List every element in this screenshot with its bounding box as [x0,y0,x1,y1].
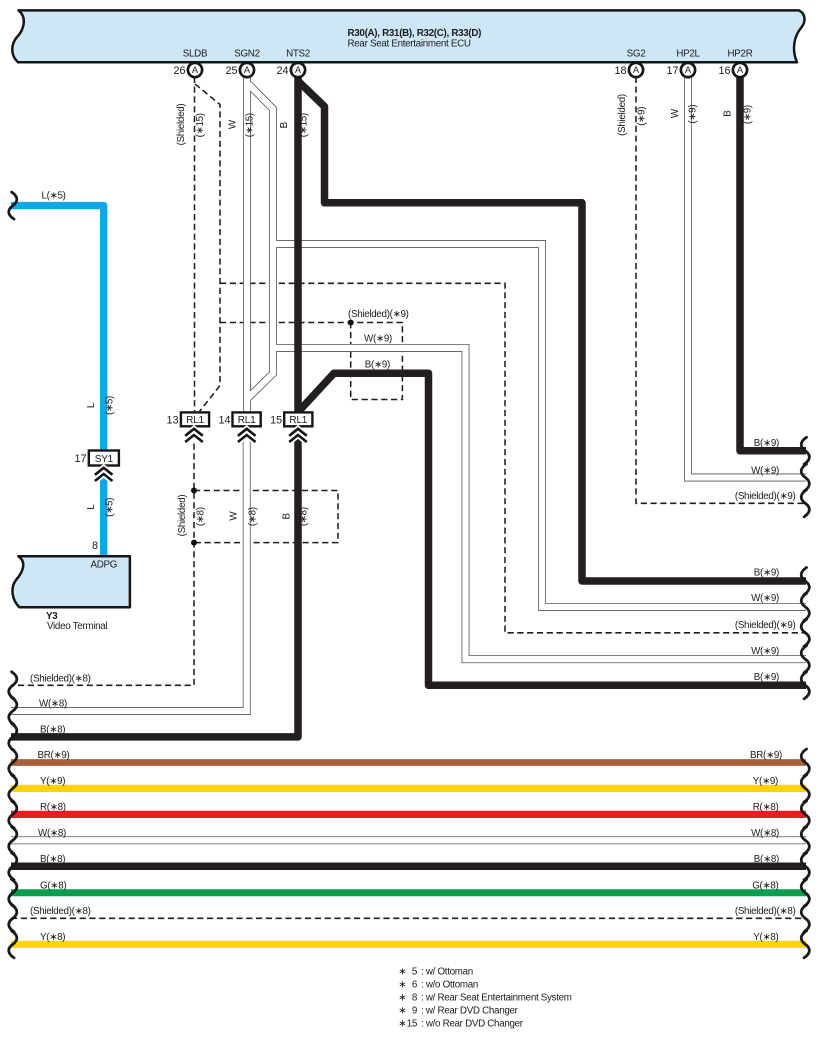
svg-text:(∗15): (∗15) [195,113,206,137]
svg-text:BR(∗9): BR(∗9) [38,750,70,761]
chevron arrows under RL1 pin15 [289,429,307,442]
svg-text:: w/ Ottoman: : w/ Ottoman [421,967,473,978]
svg-text:B(∗9): B(∗9) [754,567,779,578]
svg-text:B: B [281,513,292,520]
svg-text:B(∗8): B(∗8) [754,854,779,865]
svg-text:(∗8): (∗8) [247,507,258,526]
svg-text:15: 15 [407,1019,418,1030]
svg-text:: w/o Rear DVD Changer: : w/o Rear DVD Changer [421,1019,524,1030]
svg-text:RL1: RL1 [289,415,307,426]
svg-text:14: 14 [218,414,230,426]
wire B pin24 branch to right exit B(*9) y581 [298,81,806,581]
wire bottom full-width BR(*9) brown [11,759,806,766]
svg-text:: w/ Rear DVD Changer: : w/ Rear DVD Changer [421,1006,519,1017]
pin 18 SG2 connector circle A [629,63,643,77]
junction dot shield box mid [348,320,354,326]
junction dot shield box left top [191,488,197,494]
svg-text:17: 17 [666,65,678,77]
svg-text:W: W [228,119,239,129]
svg-text:L: L [86,504,97,510]
svg-text:5: 5 [412,967,418,978]
svg-text:(Shielded)(∗9): (Shielded)(∗9) [735,491,796,502]
connector RL1 pin15 box [284,412,312,426]
svg-text:L(∗5): L(∗5) [42,191,66,202]
svg-text:B: B [279,121,290,128]
svg-text:A: A [295,65,302,75]
svg-text:A: A [685,65,692,75]
svg-text:(∗9): (∗9) [743,105,754,124]
legend [398,967,572,1030]
svg-text:9: 9 [412,1006,417,1017]
pin 17 HP2L connector circle A [681,63,695,77]
svg-text:SY1: SY1 [95,454,114,465]
svg-text:: w/o Ottoman: : w/o Ottoman [421,980,478,991]
pin 16 HP2R connector circle A [733,63,747,77]
wire shield dashed box (Shielded)(*8) around W/B [194,491,338,543]
svg-text:: w/ Rear Seat Entertainment S: : w/ Rear Seat Entertainment System [421,993,572,1004]
connector SY1 pin17 box [89,451,119,466]
wire W(*9) horizontal to right exit y659 [273,348,806,659]
svg-text:6: 6 [412,980,418,991]
svg-text:BR(∗9): BR(∗9) [750,750,782,761]
svg-text:W(∗9): W(∗9) [751,646,779,657]
svg-text:(∗8): (∗8) [299,507,310,526]
wire B HP2R pin16 to right exit B(*9) [740,77,806,451]
svg-text:HP2R: HP2R [728,49,753,60]
svg-text:B: B [722,110,733,117]
svg-text:G(∗8): G(∗8) [752,880,778,891]
ECU banner R30/R31/R32/R33 Rear Seat Entertainment ECU [12,10,804,62]
svg-text:W(∗8): W(∗8) [751,828,779,839]
wire bottom full-width (Shielded)(*8) [11,917,806,919]
svg-text:RL1: RL1 [186,415,204,426]
wire bottom full-width B(*8) [11,863,806,871]
svg-text:(∗15): (∗15) [299,113,310,137]
svg-text:(∗5): (∗5) [104,396,115,415]
svg-text:SLDB: SLDB [183,49,208,60]
svg-text:B(∗8): B(∗8) [40,854,65,865]
svg-text:SG2: SG2 [627,49,646,60]
svg-text:W(∗8): W(∗8) [38,828,66,839]
wire W branch to right exit W(*9) y607 [273,244,806,607]
svg-text:G(∗8): G(∗8) [40,880,66,891]
svg-text:∗: ∗ [398,967,406,978]
svg-text:24: 24 [276,65,288,77]
wire W SGN2 pin25 main [243,77,251,412]
pin 25 SGN2 connector circle A [240,63,254,77]
connector RL1 pin13 box [181,412,209,426]
svg-text:(∗5): (∗5) [104,498,115,517]
svg-text:HP2L: HP2L [676,49,700,60]
svg-text:(Shielded): (Shielded) [617,94,628,136]
wire shielded pin26 branch via x220 [195,84,220,412]
node Y3 video terminal box [12,556,129,607]
wire shielded RL1 pin13 to left exit (Shielded)(*8) [11,444,194,686]
white wires outer strokes [11,77,806,841]
wire L blue to Y3 video terminal [11,206,104,555]
svg-text:W(∗8): W(∗8) [39,698,67,709]
svg-text:W: W [229,511,240,521]
white wires inner strokes [11,77,806,841]
svg-text:RL1: RL1 [238,415,256,426]
svg-text:SGN2: SGN2 [234,49,259,60]
chevron arrows under SY1 [95,468,113,481]
svg-text:B(∗9): B(∗9) [365,359,390,370]
svg-text:ADPG: ADPG [91,560,118,571]
svg-text:L: L [86,402,97,408]
svg-text:(Shielded): (Shielded) [177,495,188,537]
svg-text:W(∗9): W(∗9) [751,593,779,604]
pin 24 NTS2 connector circle A [291,63,305,77]
svg-text:18: 18 [614,65,626,77]
svg-text:(∗15): (∗15) [245,113,256,137]
svg-text:Y(∗8): Y(∗8) [40,932,65,943]
svg-text:8: 8 [92,540,98,552]
wire shielded SG2 pin18 to right exit (Shielded)(*9) [636,77,806,504]
svg-text:∗: ∗ [398,1019,406,1030]
wire shield branch loop right exits (Shielded)(*9) [220,283,806,633]
svg-text:NTS2: NTS2 [286,49,310,60]
svg-text:B(∗8): B(∗8) [40,724,65,735]
svg-text:Y(∗9): Y(∗9) [40,776,65,787]
svg-text:25: 25 [225,65,237,77]
chevron arrows under RL1 pin14 [238,429,256,442]
svg-text:∗: ∗ [398,1006,406,1017]
chevron arrows under RL1 pin13 [185,429,203,442]
break squiggles right edge [801,437,809,958]
svg-text:(∗9): (∗9) [637,107,648,126]
svg-text:(∗9): (∗9) [688,105,699,124]
svg-text:Video Terminal: Video Terminal [47,621,107,632]
break squiggles left edge [9,192,17,958]
svg-text:R(∗8): R(∗8) [753,802,779,813]
svg-text:∗: ∗ [398,993,406,1004]
svg-text:Y(∗8): Y(∗8) [753,932,778,943]
svg-text:15: 15 [270,414,282,426]
svg-text:8: 8 [412,993,418,1004]
wire shield dashed box (Shielded)(*9) around W/B [220,323,402,400]
svg-text:R(∗8): R(∗8) [40,802,66,813]
svg-text:(Shielded)(∗9): (Shielded)(∗9) [348,309,409,320]
svg-text:17: 17 [74,453,86,465]
svg-text:(Shielded)(∗8): (Shielded)(∗8) [735,906,796,917]
wire shielded SLDB pin26 to RL1 pin13 [194,77,196,412]
wire B NTS2 pin24 main [294,77,302,412]
svg-text:W(∗9): W(∗9) [364,333,392,344]
wire B RL1 pin15 to left exit B(*8) [11,426,298,737]
svg-text:A: A [633,65,640,75]
wire W pin25 branch down to junction [248,84,274,399]
junction dot shield box left bottom [191,540,197,546]
wire W HP2L pin17 to right exit W(*9) [688,77,806,478]
svg-text:B(∗9): B(∗9) [754,672,779,683]
svg-text:26: 26 [173,65,185,77]
wire bottom full-width W(*8) [11,836,806,844]
svg-text:(Shielded)(∗8): (Shielded)(∗8) [30,906,91,917]
svg-text:W(∗9): W(∗9) [751,465,779,476]
wire bottom full-width R(*8) red [11,811,806,818]
svg-text:Rear Seat Entertainment ECU: Rear Seat Entertainment ECU [348,38,471,49]
wire bottom full-width G(*8) green [11,889,806,896]
svg-text:13: 13 [166,414,178,426]
svg-text:A: A [244,65,251,75]
svg-text:∗: ∗ [398,980,406,991]
svg-text:A: A [192,65,199,75]
wire bottom full-width Y(*8) yellow [11,941,806,948]
svg-text:A: A [737,65,744,75]
svg-text:(∗8): (∗8) [195,507,206,526]
svg-text:B(∗9): B(∗9) [754,438,779,449]
wire B(*9) branch from RL1-15 wire to right exit y685 [300,373,807,685]
svg-text:(Shielded)(∗9): (Shielded)(∗9) [735,620,796,631]
wire bottom full-width Y(*9) yellow [11,785,806,792]
svg-text:(Shielded): (Shielded) [176,104,187,146]
pin 26 SLDB connector circle A [188,63,202,77]
svg-text:W: W [670,108,681,118]
wire W RL1 pin14 to left exit W(*8) [11,426,247,711]
svg-text:Y(∗9): Y(∗9) [753,776,778,787]
svg-text:(Shielded)(∗8): (Shielded)(∗8) [30,674,91,685]
connector RL1 pin14 box [233,412,261,426]
svg-text:16: 16 [718,65,730,77]
